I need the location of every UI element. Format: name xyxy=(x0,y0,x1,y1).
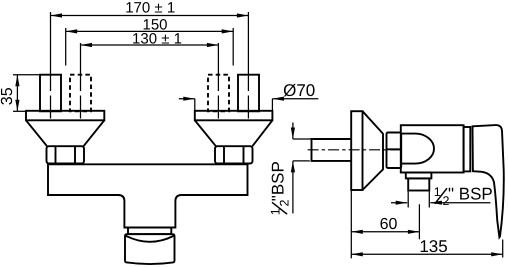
side view: cartridge dome xyxy=(401,134,434,164)
side view: pipe centerline xyxy=(308,149,403,151)
svg-text:"BSP: "BSP xyxy=(269,161,288,201)
left inlet solid connector xyxy=(40,75,61,112)
svg-text:Ø70: Ø70 xyxy=(283,81,315,100)
Ø70 leader arrows xyxy=(179,99,318,111)
side view: outlet stub xyxy=(408,178,429,190)
vertical 1/2"BSP text xyxy=(268,161,291,215)
side view: connection nut xyxy=(387,133,402,169)
extension line left 150 xyxy=(65,28,67,66)
side view: flange cone xyxy=(363,111,384,190)
dimension 60 xyxy=(351,231,419,233)
dimension 150 line xyxy=(66,30,234,32)
left escutcheon cone xyxy=(26,120,104,146)
dimension 150 arrows xyxy=(66,29,234,33)
right hex nut xyxy=(215,146,253,163)
extension line handle tip xyxy=(502,240,504,258)
side view: pipe thread dimension arrows xyxy=(293,123,312,214)
dimension 130±1 line xyxy=(81,44,219,46)
1/2" BSP text xyxy=(434,185,493,208)
dimension 170±1 arrows xyxy=(51,13,249,17)
right inlet dashed connector xyxy=(208,75,229,112)
side view: mixer body xyxy=(401,125,464,172)
dimension 130±1 arrows xyxy=(81,43,219,47)
right escutcheon plate xyxy=(195,111,273,121)
svg-text:" BSP: " BSP xyxy=(448,185,493,204)
svg-text:35: 35 xyxy=(0,87,16,105)
spout cap top arc xyxy=(125,236,174,242)
svg-text:130 ± 1: 130 ± 1 xyxy=(132,30,182,47)
dimension 35 line and arrows xyxy=(13,75,39,112)
left escutcheon plate xyxy=(26,111,104,121)
extension line wall face xyxy=(350,190,352,258)
extension line left dashed-inlet centerline xyxy=(80,43,82,119)
right escutcheon cone xyxy=(195,120,273,146)
mixer body bar with center step xyxy=(48,164,248,227)
left inlet dashed connector xyxy=(70,75,91,112)
outlet thread dimension xyxy=(391,192,491,208)
extension line right 150 xyxy=(232,28,234,66)
left hex nut xyxy=(47,146,85,163)
svg-text:170 ± 1: 170 ± 1 xyxy=(125,0,175,17)
side view: inlet pipe xyxy=(312,139,352,161)
side view: wall flange disc xyxy=(351,111,362,190)
side view: lever handle xyxy=(473,125,504,237)
extension line outlet center xyxy=(418,204,420,239)
side view: outlet collar xyxy=(406,173,432,179)
side view: body end band xyxy=(464,127,471,171)
dimension 170±1 line xyxy=(51,15,249,17)
svg-text:135: 135 xyxy=(419,237,447,256)
extension line right solid-inlet centerline xyxy=(247,12,249,119)
extension line right dashed-inlet centerline xyxy=(217,43,219,119)
right inlet solid connector xyxy=(238,75,259,112)
dimension 135 xyxy=(351,253,502,255)
spout collar band xyxy=(128,228,171,235)
svg-text:60: 60 xyxy=(380,216,398,233)
spout cap xyxy=(125,234,175,264)
extension line left solid-inlet centerline xyxy=(50,12,52,119)
